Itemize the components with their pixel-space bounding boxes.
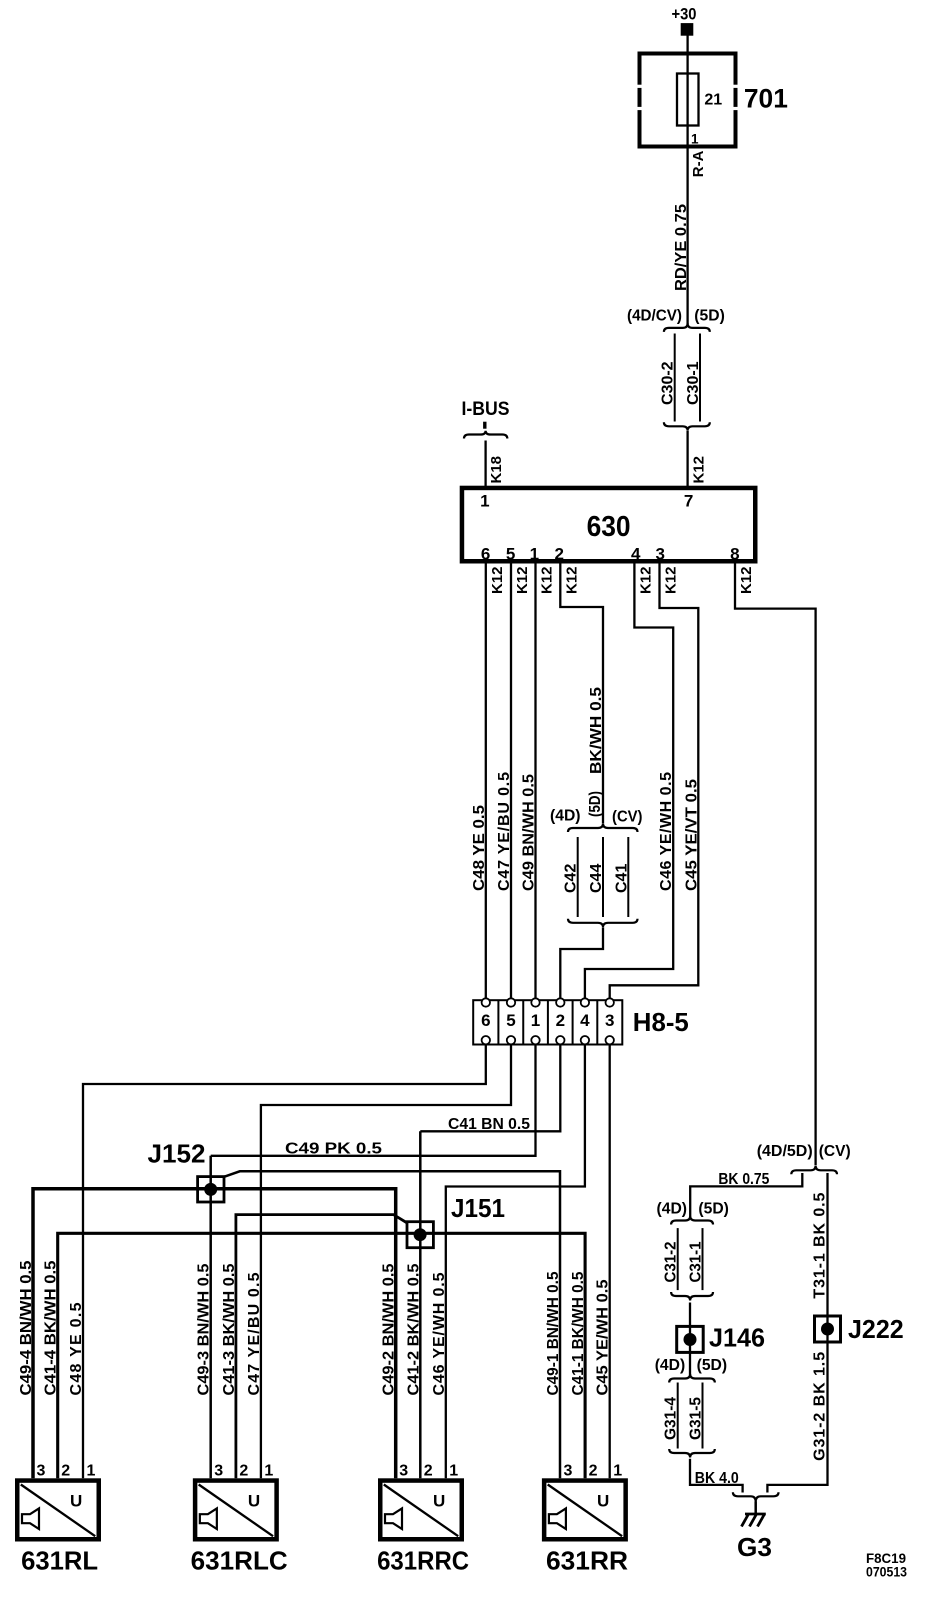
svg-text:C42: C42: [563, 864, 580, 893]
svg-text:K12: K12: [514, 566, 531, 594]
svg-text:J146: J146: [709, 1323, 765, 1353]
ground branch split brace: [791, 1166, 837, 1175]
wire C49 branch J152 to 631RR pin3: [224, 1171, 560, 1478]
svg-text:(5D): (5D): [697, 1357, 728, 1374]
630 pin 3 (bottom): [655, 544, 664, 563]
svg-text:C49-4 BN/WH 0.5: C49-4 BN/WH 0.5: [18, 1260, 35, 1395]
svg-text:C41-2 BK/WH 0.5: C41-2 BK/WH 0.5: [405, 1263, 422, 1395]
wire label C49-2 BN/WH 0.5: [381, 1263, 398, 1395]
svg-text:1: 1: [530, 544, 539, 563]
wire label C41-3 BK/WH 0.5: [221, 1263, 238, 1395]
wire C30 to 630 pin 7: [686, 431, 688, 487]
variant label (4D) at C31: [657, 1200, 688, 1217]
svg-text:3: 3: [605, 1011, 614, 1030]
junction label J151: [451, 1193, 505, 1223]
I-BUS dashed stub: [483, 422, 486, 429]
wire 4D/5D branch to C31: [690, 1173, 802, 1216]
wire C49 J152 feed down to 631RLC pin3: [209, 1156, 212, 1479]
631RLC pin 3: [214, 1463, 223, 1480]
svg-text:RD/YE 0.75: RD/YE 0.75: [673, 204, 690, 291]
connector C44 line: [602, 837, 604, 917]
wire C44 to H8-5 pin2: [560, 928, 603, 999]
svg-text:C46 YE/WH 0.5: C46 YE/WH 0.5: [431, 1272, 448, 1395]
svg-text:C48 YE 0.5: C48 YE 0.5: [68, 1302, 85, 1395]
svg-text:J222: J222: [848, 1314, 904, 1344]
wire C49 trunk 631RL pin3 through J152 to 631RRC pin3: [33, 1189, 396, 1479]
wire label C45 YE/WH 0.5 (lower): [595, 1279, 612, 1395]
wire label C47 YE/BU 0.5 (lower): [246, 1272, 263, 1395]
wire C48 H8-5 pin6 to 631RL pin1: [83, 1044, 486, 1478]
631RLC pin 2: [239, 1463, 248, 1480]
wire label C49-4 BN/WH 0.5: [18, 1260, 35, 1395]
wire label C41-4 BK/WH 0.5: [43, 1260, 60, 1395]
connector H8-5 box: [473, 1000, 622, 1044]
svg-text:C31-2: C31-2: [662, 1241, 679, 1282]
svg-text:I-BUS: I-BUS: [462, 399, 510, 420]
connector C31 bottom brace: [671, 1292, 713, 1301]
svg-text:1: 1: [613, 1463, 622, 1480]
svg-text:C44: C44: [588, 864, 605, 893]
svg-text:C49 BN/WH 0.5: C49 BN/WH 0.5: [521, 774, 538, 891]
630 pin 6 (bottom): [481, 544, 490, 563]
variant label (5D): [694, 307, 725, 324]
H8-5 cell pin 3: [605, 1011, 614, 1030]
junction label J222: [848, 1314, 904, 1344]
svg-text:1: 1: [87, 1463, 96, 1480]
svg-text:630: 630: [587, 511, 631, 543]
631RR pin 2: [589, 1463, 598, 1480]
junction J151 dot: [414, 1228, 427, 1241]
630 pin 5 (bottom): [506, 544, 515, 563]
variant label (5D) at C31: [698, 1200, 729, 1217]
pin name K12 at 630 bottom pin 6: [489, 566, 506, 594]
wire 701 pin 1 down to C30: [686, 147, 688, 325]
wire label C47 YE/BU 0.5: [496, 772, 513, 891]
svg-text:631RLC: 631RLC: [191, 1546, 288, 1576]
wire through fuse box 701: [686, 54, 688, 147]
connector G31-4 line: [677, 1383, 679, 1449]
svg-text:C30-1: C30-1: [685, 361, 702, 405]
wire label C49-1 BN/WH 0.5: [545, 1271, 562, 1395]
connector C30-1 line: [699, 334, 701, 422]
631RLC pin 1: [264, 1463, 273, 1480]
svg-text:631RR: 631RR: [546, 1546, 628, 1576]
wire C45 H8-5 pin3 to 631RR pin1: [609, 1044, 611, 1478]
svg-text:+30: +30: [672, 5, 697, 24]
connector label G31-4: [662, 1397, 679, 1440]
wire label C48 YE 0.5: [471, 805, 488, 891]
pin name K12 at 630 bottom pin 2: [563, 566, 580, 594]
631RR pin 3: [564, 1463, 573, 1480]
svg-text:H8-5: H8-5: [633, 1007, 689, 1037]
connector label C30-1: [685, 361, 702, 405]
svg-text:5: 5: [506, 544, 515, 563]
svg-text:2: 2: [424, 1463, 433, 1480]
svg-text:1: 1: [691, 132, 699, 147]
svg-text:21: 21: [704, 91, 722, 108]
svg-text:C30-2: C30-2: [660, 361, 677, 405]
wire J222 to ground G3: [767, 1342, 827, 1493]
631RRC pin 2: [424, 1463, 433, 1480]
svg-text:C45 YE/WH 0.5: C45 YE/WH 0.5: [595, 1279, 612, 1395]
junction J152 square: [198, 1177, 224, 1202]
loudspeaker label 631RR: [546, 1546, 628, 1576]
fuse position label 21: [704, 91, 722, 108]
svg-text:U: U: [433, 1491, 445, 1510]
junction J151 square: [407, 1222, 433, 1248]
svg-text:G31-2 BK 1.5: G31-2 BK 1.5: [812, 1352, 829, 1461]
component label 701: [744, 84, 788, 114]
wire CV branch to J222: [826, 1173, 828, 1342]
wire label C46 YE/WH 0.5 (lower): [431, 1272, 448, 1395]
H8-5 cell pin 4: [580, 1011, 590, 1030]
wire 630 pin8 to ground branch: [735, 564, 816, 1166]
svg-text:7: 7: [684, 492, 693, 511]
connector G31-5 line: [702, 1383, 704, 1449]
svg-text:J152: J152: [148, 1139, 206, 1169]
fuse element 21 in 701: [677, 74, 699, 126]
H8-5 cell pin 1: [531, 1011, 540, 1030]
connector C31-2 line: [677, 1228, 679, 1290]
variant label (4D/5D): [757, 1143, 813, 1160]
connector label C31-2: [662, 1241, 679, 1282]
connector H8-5 cell dividers: [498, 1000, 597, 1044]
pin 1 of 701: [691, 132, 699, 147]
wire label G31-2 BK 1.5: [812, 1352, 829, 1461]
svg-text:C49 PK 0.5: C49 PK 0.5: [285, 1140, 382, 1157]
wire C49 PK H8-5 pin1 to J152: [211, 1044, 536, 1155]
ground label G3: [737, 1532, 772, 1562]
wire C41 branch J151 to 631RLC pin2: [236, 1215, 407, 1479]
svg-text:U: U: [248, 1491, 260, 1510]
svg-text:R-A: R-A: [690, 150, 707, 177]
wire label C41-1 BK/WH 0.5: [570, 1271, 587, 1395]
wire label RD/YE 0.75: [673, 204, 690, 291]
svg-text:(5D): (5D): [587, 791, 604, 817]
wire +30 to fuse box 701: [686, 35, 688, 53]
variant label (4D) at C42: [550, 807, 581, 824]
connector G31 bottom brace: [669, 1449, 715, 1458]
fuse box 701 outline (dashed sides): [638, 52, 738, 149]
wire C49 630 pin1 to H8-5 pin1: [534, 564, 536, 999]
svg-text:BK 4.0: BK 4.0: [695, 1470, 739, 1487]
svg-text:(4D): (4D): [550, 807, 581, 824]
junction label J146: [709, 1323, 765, 1353]
loudspeaker 631RL box: [17, 1481, 99, 1540]
631RL pin 2: [61, 1463, 70, 1480]
svg-text:K12: K12: [563, 566, 580, 594]
connector G31 top brace: [669, 1374, 715, 1383]
svg-text:T31-1 BK 0.5: T31-1 BK 0.5: [812, 1193, 829, 1299]
svg-text:3: 3: [214, 1463, 223, 1480]
svg-text:C31-1: C31-1: [688, 1241, 705, 1282]
wire C46 630 pin4 to H8-5 pin4: [585, 564, 673, 999]
connector C31 top brace: [671, 1216, 713, 1225]
wire label C46 YE/WH 0.5: [658, 772, 675, 891]
svg-text:C46 YE/WH 0.5: C46 YE/WH 0.5: [658, 772, 675, 891]
svg-text:070513: 070513: [866, 1564, 907, 1580]
svg-text:2: 2: [239, 1463, 248, 1480]
svg-text:K12: K12: [539, 566, 556, 594]
loudspeaker label 631RLC: [191, 1546, 288, 1576]
H8-5 top pin sockets: [482, 998, 614, 1006]
connector label C41: [613, 864, 630, 893]
svg-text:C47 YE/BU 0.5: C47 YE/BU 0.5: [496, 772, 513, 891]
loudspeaker 631RLC box: [195, 1481, 277, 1540]
wire C31 to J146: [689, 1303, 691, 1353]
junction J146 dot: [684, 1333, 697, 1346]
ground G3 symbol: [742, 1514, 766, 1527]
631RL pin 1: [87, 1463, 96, 1480]
wire 630 pin2 upper segment: [560, 564, 603, 824]
svg-text:K12: K12: [489, 566, 506, 594]
H8-5 cell pin 2: [556, 1011, 565, 1030]
pin name K12 at 630 bottom pin 1: [539, 566, 556, 594]
connector brace below C42/C44/C41: [568, 919, 638, 928]
svg-text:4: 4: [631, 544, 641, 563]
svg-text:K12: K12: [691, 456, 708, 484]
svg-text:1: 1: [531, 1011, 540, 1030]
wire label C48 YE 0.5 (lower): [68, 1302, 85, 1395]
wire C47 630 pin5 to H8-5 pin5: [510, 564, 512, 999]
svg-text:5: 5: [506, 1011, 515, 1030]
630 pin 7 (top): [684, 492, 693, 511]
svg-text:K12: K12: [637, 566, 654, 594]
connector label G31-5: [688, 1397, 705, 1440]
wire J146 to G31: [689, 1352, 691, 1375]
630 pin 8 (bottom): [730, 544, 739, 563]
svg-text:C41-4 BK/WH 0.5: C41-4 BK/WH 0.5: [43, 1260, 60, 1395]
631RRC pin 1: [449, 1463, 458, 1480]
wire C48 630 pin6 to H8-5 pin6: [485, 564, 487, 999]
svg-text:C48 YE 0.5: C48 YE 0.5: [471, 805, 488, 891]
630 pin 2 (bottom): [554, 544, 563, 563]
connector C42 line: [577, 837, 579, 917]
junction J222 square: [815, 1316, 841, 1342]
svg-text:C49-2 BN/WH 0.5: C49-2 BN/WH 0.5: [381, 1263, 398, 1395]
svg-text:C45 YE/VT 0.5: C45 YE/VT 0.5: [683, 779, 700, 891]
pin name K12 at 630 bottom pin 3: [663, 566, 680, 594]
631RR pin 1: [613, 1463, 622, 1480]
wire I-BUS to 630 pin 1: [484, 441, 486, 488]
pin name K12 at 630 bottom pin 8: [738, 566, 755, 594]
variant label (4D) at G31: [655, 1357, 686, 1374]
svg-text:BK/WH 0.5: BK/WH 0.5: [588, 687, 605, 774]
wire name R-A: [690, 150, 707, 177]
svg-text:6: 6: [481, 544, 490, 563]
svg-text:2: 2: [589, 1463, 598, 1480]
loudspeaker 631RRC box: [380, 1481, 462, 1540]
svg-text:(4D): (4D): [657, 1200, 688, 1217]
ground G3 brace: [733, 1492, 779, 1502]
wire label C45 YE/VT 0.5: [683, 779, 700, 891]
svg-text:(CV): (CV): [612, 808, 643, 825]
loudspeaker label 631RL: [21, 1546, 98, 1576]
wire label T31-1 BK 0.5: [812, 1193, 829, 1299]
wire C41 trunk 631RL pin2 through J151 to 631RR pin2: [58, 1233, 585, 1478]
svg-text:J151: J151: [451, 1193, 505, 1223]
variant label (4D/CV): [627, 307, 682, 324]
ground G3 stem: [754, 1502, 757, 1515]
junction J152 dot: [204, 1183, 217, 1196]
svg-text:K12: K12: [738, 566, 755, 594]
connector label H8-5: [633, 1007, 689, 1037]
wire C41 J151 feed down to 631RRC pin2: [419, 1131, 422, 1478]
svg-text:C49-1 BN/WH 0.5: C49-1 BN/WH 0.5: [545, 1271, 562, 1395]
wire C45 630 pin3 to H8-5 pin3: [610, 564, 699, 999]
svg-text:3: 3: [37, 1463, 46, 1480]
svg-text:K12: K12: [663, 566, 680, 594]
svg-text:(4D/CV): (4D/CV): [627, 307, 682, 324]
variant label (5D) at G31: [697, 1357, 728, 1374]
svg-text:G3: G3: [737, 1532, 772, 1562]
svg-text:(5D): (5D): [694, 307, 725, 324]
power feed +30 label: [672, 5, 697, 24]
junction J146 square: [677, 1326, 704, 1352]
connector C41 line: [627, 837, 629, 917]
junction J222 dot: [821, 1323, 834, 1336]
svg-text:3: 3: [655, 544, 664, 563]
svg-text:631RL: 631RL: [21, 1546, 98, 1576]
631RL pin 3: [37, 1463, 46, 1480]
svg-text:BK 0.75: BK 0.75: [718, 1171, 769, 1188]
svg-text:(CV): (CV): [819, 1143, 851, 1160]
svg-text:C47 YE/BU 0.5: C47 YE/BU 0.5: [246, 1272, 263, 1395]
control unit 630 box: [462, 488, 755, 561]
connector C30-2 line: [674, 334, 676, 422]
svg-text:2: 2: [61, 1463, 70, 1480]
svg-text:1: 1: [264, 1463, 273, 1480]
pin name K12 at 630 bottom pin 5: [514, 566, 531, 594]
H8-5 cell pin 5: [506, 1011, 515, 1030]
wire C41 BN H8-5 pin2 to J151: [420, 1044, 560, 1131]
svg-text:(5D): (5D): [698, 1200, 729, 1217]
svg-text:C41-1 BK/WH 0.5: C41-1 BK/WH 0.5: [570, 1271, 587, 1395]
connector label C31-1: [688, 1241, 705, 1282]
wire label C41-2 BK/WH 0.5: [405, 1263, 422, 1395]
I-BUS brace: [464, 431, 507, 439]
wire C47 H8-5 pin5 to 631RLC pin1: [261, 1044, 511, 1478]
wire label BK/WH 0.5: [588, 687, 605, 774]
variant label (5D) at C44: [587, 791, 604, 817]
svg-text:K18: K18: [488, 456, 505, 484]
variant label (CV) at ground branch: [819, 1143, 851, 1160]
630 pin 4 (bottom): [631, 544, 641, 563]
pin name K12 at 630 pin 7: [691, 456, 708, 484]
junction label J152: [148, 1139, 206, 1169]
wire C46 H8-5 pin4 to 631RRC pin1: [446, 1044, 585, 1478]
H8-5 bottom pin sockets: [482, 1036, 614, 1044]
svg-text:6: 6: [481, 1011, 490, 1030]
wire G31 to ground G3: [690, 1459, 743, 1493]
H8-5 cell pin 6: [481, 1011, 490, 1030]
I-BUS net label: [462, 399, 510, 420]
connector label C44: [588, 864, 605, 893]
svg-text:701: 701: [744, 84, 788, 114]
svg-text:C49-3 BN/WH 0.5: C49-3 BN/WH 0.5: [196, 1263, 213, 1395]
wire label BK 0.75: [718, 1171, 769, 1188]
connector C31-1 line: [702, 1228, 704, 1290]
wire label BK 4.0: [695, 1470, 739, 1487]
svg-text:C41 BN 0.5: C41 BN 0.5: [448, 1116, 530, 1133]
svg-text:C41-3 BK/WH 0.5: C41-3 BK/WH 0.5: [221, 1263, 238, 1395]
wire label C49-3 BN/WH 0.5: [196, 1263, 213, 1395]
svg-text:G31-4: G31-4: [662, 1397, 679, 1440]
pin name K12 at 630 bottom pin 4: [637, 566, 654, 594]
connector brace above C42/C44/C41: [568, 824, 638, 833]
loudspeaker label 631RRC: [377, 1546, 469, 1576]
svg-text:1: 1: [480, 492, 489, 511]
drawing number F8C19: [866, 1550, 906, 1566]
connector label C30-2: [660, 361, 677, 405]
drawing date 070513: [866, 1564, 907, 1580]
631RRC pin 3: [399, 1463, 408, 1480]
svg-text:2: 2: [556, 1011, 565, 1030]
svg-text:2: 2: [554, 544, 563, 563]
wire label C41 BN 0.5: [448, 1116, 530, 1133]
630 pin 1 (bottom): [530, 544, 539, 563]
svg-text:(4D/5D): (4D/5D): [757, 1143, 813, 1160]
svg-text:3: 3: [399, 1463, 408, 1480]
power feed +30 terminal square: [681, 24, 693, 36]
wire label C49 BN/WH 0.5: [521, 774, 538, 891]
svg-text:1: 1: [449, 1463, 458, 1480]
svg-text:(4D): (4D): [655, 1357, 686, 1374]
variant label (CV) at C41: [612, 808, 643, 825]
svg-text:G31-5: G31-5: [688, 1397, 705, 1440]
svg-text:U: U: [70, 1491, 82, 1510]
630 pin 1 (top): [480, 492, 489, 511]
svg-text:U: U: [597, 1491, 609, 1510]
svg-text:631RRC: 631RRC: [377, 1546, 469, 1576]
component label 630: [587, 511, 631, 543]
svg-text:C41: C41: [613, 864, 630, 893]
svg-text:8: 8: [730, 544, 739, 563]
connector C30 top brace: [664, 323, 710, 332]
loudspeaker 631RR box: [544, 1481, 626, 1540]
wire label C49 PK 0.5: [285, 1140, 382, 1157]
svg-text:4: 4: [580, 1011, 590, 1030]
connector C30 bottom brace: [664, 422, 710, 431]
pin name K18 at 630 pin 1: [488, 456, 505, 484]
svg-text:3: 3: [564, 1463, 573, 1480]
connector label C42: [563, 864, 580, 893]
